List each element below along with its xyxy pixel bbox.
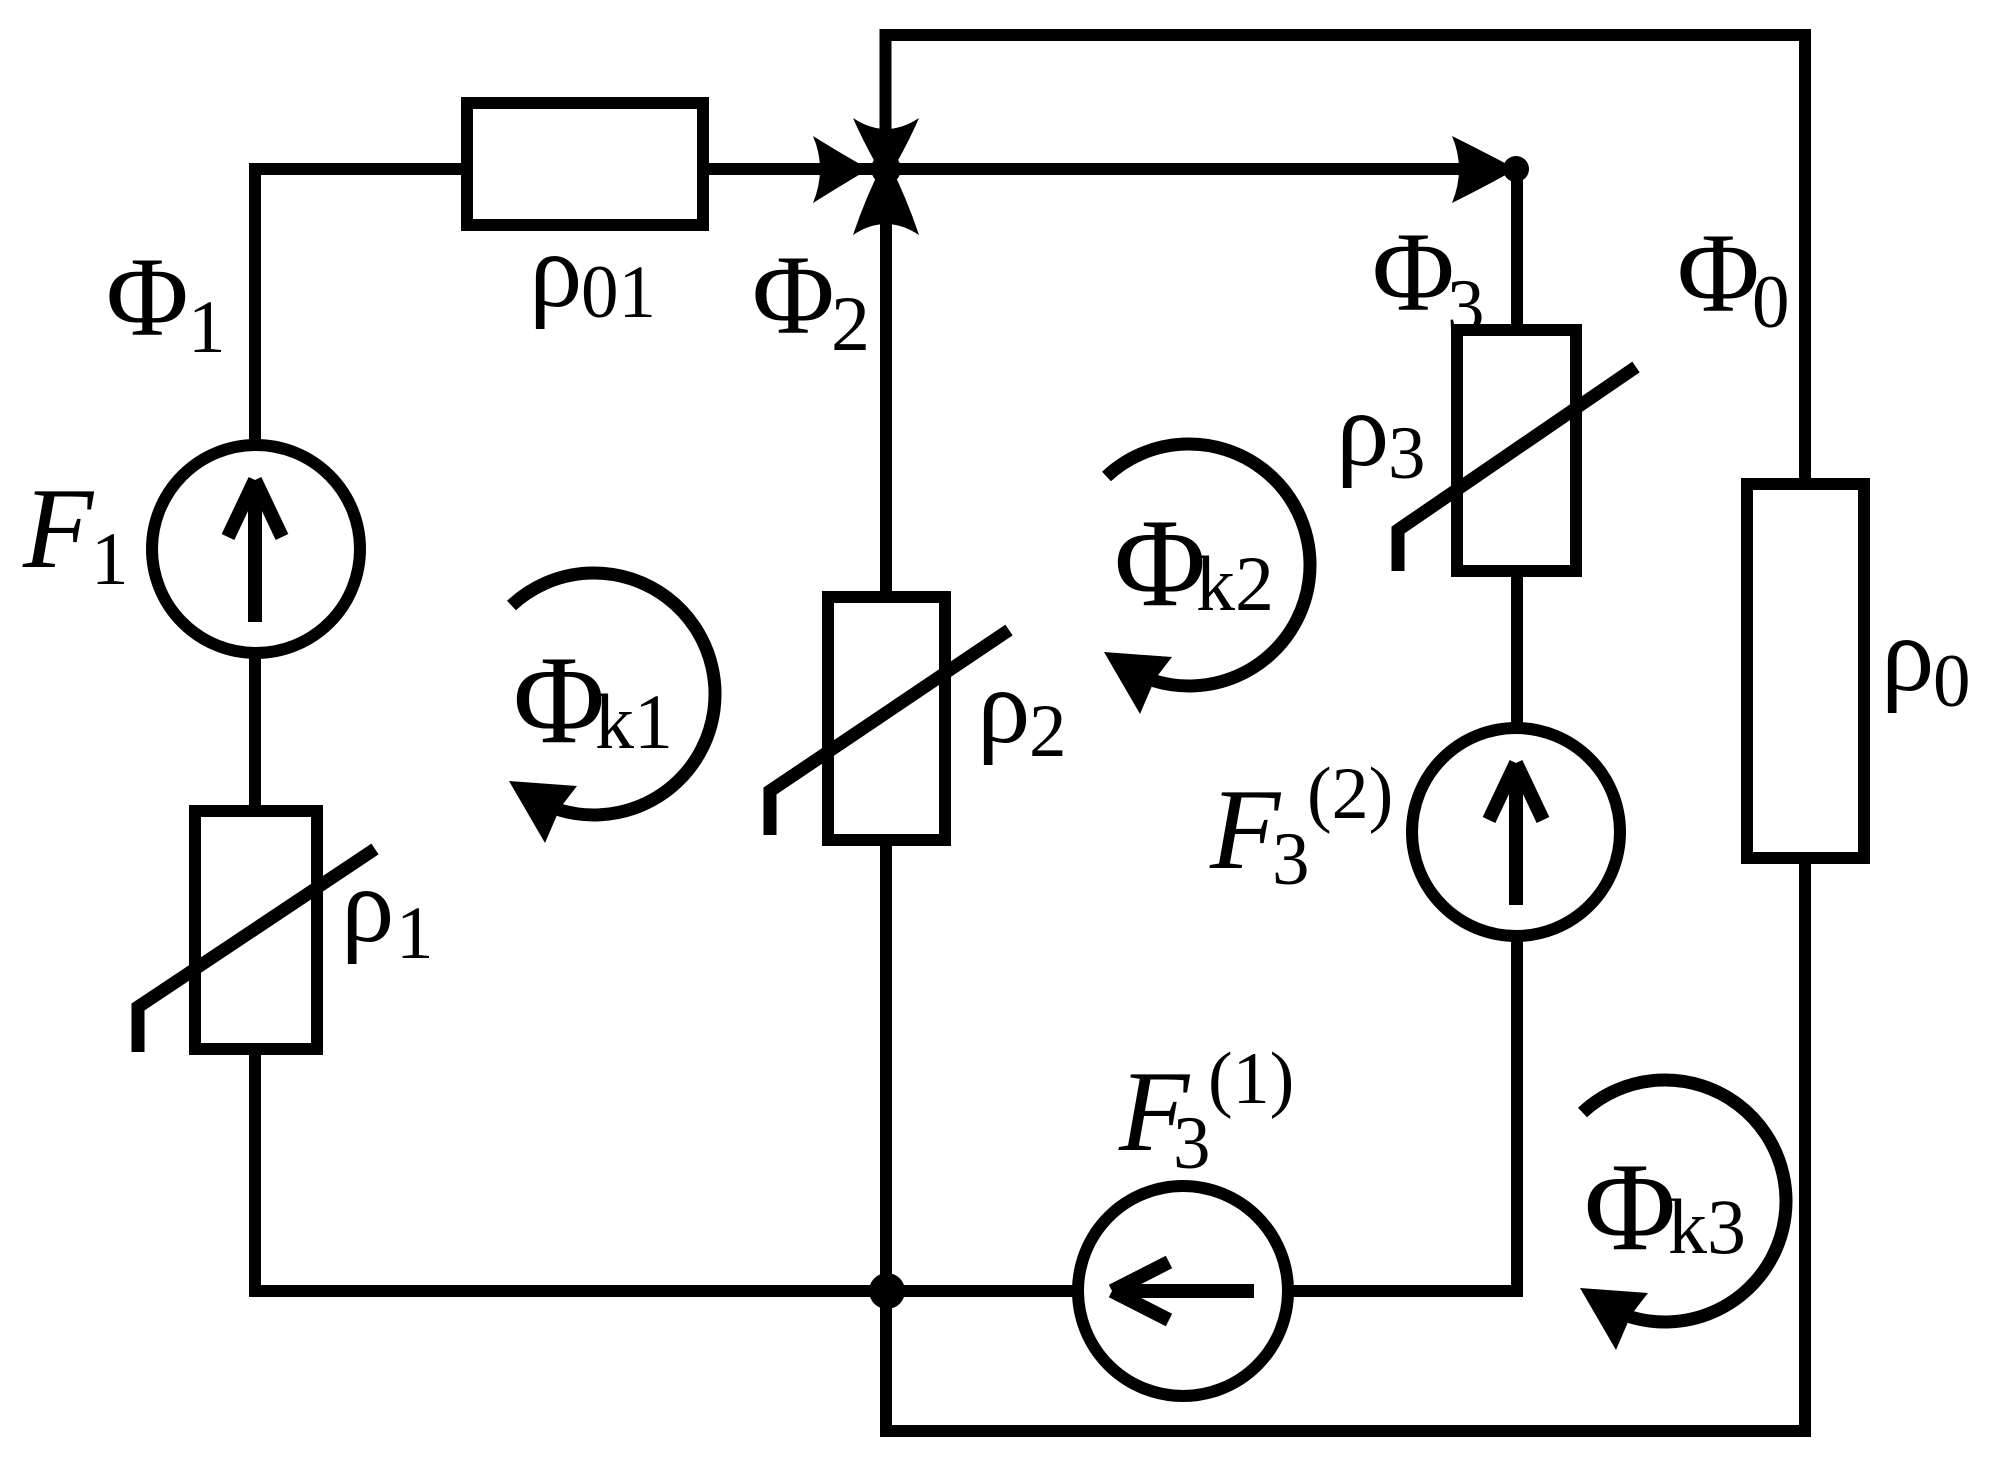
loop arrow Phik3 arc xyxy=(1583,1080,1787,1322)
svg-text:Φ: Φ xyxy=(513,631,605,770)
resistor rho01 body xyxy=(467,103,703,225)
svg-text:3: 3 xyxy=(1173,1102,1211,1185)
source F1 circle xyxy=(152,445,360,653)
wire middle vertical below dot to bottom rail xyxy=(880,1285,892,1437)
wire outer right lower xyxy=(1799,858,1811,1437)
svg-text:01: 01 xyxy=(581,251,656,334)
resistor rho1 body xyxy=(195,811,317,1049)
svg-text:3: 3 xyxy=(1272,818,1310,901)
wire outer right upper xyxy=(1799,35,1811,484)
wire middle vertical (Phi2 branch lower) xyxy=(880,840,892,1291)
flux arrow Phi1 into top junction (rightward) xyxy=(813,136,869,203)
svg-text:Φ: Φ xyxy=(1372,210,1455,335)
source F1 arrow xyxy=(228,480,282,622)
svg-text:Φ: Φ xyxy=(1114,494,1206,633)
svg-text:1: 1 xyxy=(91,518,129,601)
svg-text:(1): (1) xyxy=(1208,1038,1294,1120)
wire left vertical below rho1 xyxy=(249,1049,261,1297)
loop arrow Phik2 head xyxy=(1104,652,1172,714)
svg-text:Φ: Φ xyxy=(106,235,189,360)
wire junction to Phi3 corner xyxy=(886,163,1517,175)
rho1 variability slash xyxy=(138,849,375,1052)
corner blob at Phi3 arrow xyxy=(1503,156,1529,182)
svg-text:3: 3 xyxy=(1447,265,1485,348)
wire bottom middle to F3(1) xyxy=(886,1285,1078,1297)
resistor rho3 body xyxy=(1457,330,1576,571)
svg-text:0: 0 xyxy=(1752,261,1790,344)
wire left vertical upper (Phi1) xyxy=(249,163,261,446)
wire F3(1) to right corner xyxy=(1288,1285,1517,1297)
svg-text:ρ: ρ xyxy=(1881,596,1934,714)
flux arrow Phi2 up into top junction xyxy=(853,157,919,235)
loop arrow Phik2 arc xyxy=(1107,444,1311,686)
top junction blob xyxy=(871,154,901,184)
wire junction up to outer top rail xyxy=(880,29,892,169)
svg-text:Φ: Φ xyxy=(752,233,835,358)
svg-text:ρ: ρ xyxy=(341,847,394,965)
resistor rho0 body xyxy=(1747,484,1864,858)
svg-text:Φ: Φ xyxy=(1584,1138,1676,1277)
wire outer top rail xyxy=(880,29,1812,41)
svg-text:(2): (2) xyxy=(1307,753,1393,835)
source F3(2) circle xyxy=(1412,728,1620,936)
svg-text:k2: k2 xyxy=(1196,540,1274,627)
svg-text:ρ: ρ xyxy=(977,648,1030,766)
svg-text:k1: k1 xyxy=(595,678,673,765)
loop arrow Phik1 head xyxy=(509,781,577,843)
wire Phi3 vertical corner to rho3 xyxy=(1511,169,1523,330)
svg-text:3: 3 xyxy=(1388,412,1426,495)
svg-text:2: 2 xyxy=(1029,690,1067,773)
flux arrow Phi0 down into top junction xyxy=(853,118,919,181)
wire rho01 to junction xyxy=(703,163,886,175)
source F3(2) arrow xyxy=(1489,763,1543,905)
source F3(1) circle xyxy=(1078,1186,1288,1396)
wire middle vertical (Phi2 branch upper) xyxy=(880,169,892,597)
svg-text:0: 0 xyxy=(1933,640,1971,723)
resistor rho2 body xyxy=(828,597,945,840)
flux arrow Phi3 at top-right corner (rightward) xyxy=(1452,136,1516,203)
wire outer bottom rail xyxy=(886,1425,1811,1437)
wire top-left horizontal (node A to rho01) xyxy=(255,163,467,175)
svg-text:1: 1 xyxy=(188,286,226,369)
wire bottom-left horizontal xyxy=(249,1285,886,1297)
loop arrow Phik3 head xyxy=(1580,1288,1648,1350)
svg-text:k3: k3 xyxy=(1668,1183,1746,1270)
loop arrow Phik1 arc xyxy=(512,573,716,815)
svg-text:2: 2 xyxy=(831,280,870,367)
svg-text:Φ: Φ xyxy=(1677,211,1760,336)
wire F3(2) down to bottom middle xyxy=(1511,936,1523,1297)
svg-text:ρ: ρ xyxy=(1336,371,1389,489)
rho3 variability slash xyxy=(1398,367,1636,571)
source F3(1) arrow xyxy=(1112,1262,1254,1320)
svg-text:ρ: ρ xyxy=(529,212,582,330)
node A junction dot (bottom) xyxy=(869,1273,905,1309)
wire rho3 to F3(2) xyxy=(1511,571,1523,728)
rho2 variability slash xyxy=(770,630,1009,835)
wire left vertical between F1 and rho1 xyxy=(249,652,261,811)
svg-text:F: F xyxy=(22,465,95,592)
svg-text:1: 1 xyxy=(396,892,434,975)
